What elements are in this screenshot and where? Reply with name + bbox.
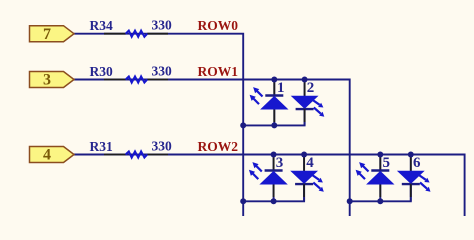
svg-text:330: 330 [152, 18, 173, 33]
resistor R31 [104, 151, 168, 157]
junction ROW1/LED2 [302, 77, 308, 83]
junction ROW1/LED1 [271, 77, 277, 83]
wire LED6 column [410, 155, 412, 202]
junction ROW2/LED3 [271, 152, 277, 158]
wire net ROW1 (horizontal then vertical at x=349.7) [74, 80, 350, 217]
junction ROW2/LED5 [377, 152, 383, 158]
junction LED3 bottom [271, 198, 277, 204]
wire LED3 column [273, 155, 275, 202]
LED 4 [290, 157, 324, 197]
svg-text:R34: R34 [90, 18, 113, 33]
resistor R30 [104, 76, 168, 82]
svg-text:330: 330 [152, 63, 173, 78]
svg-text:5: 5 [383, 155, 391, 171]
wire LED2 column [304, 80, 306, 126]
svg-text:330: 330 [152, 138, 173, 153]
svg-text:2: 2 [307, 80, 315, 96]
wire net ROW2 (horizontal then vertical at right edge) [74, 155, 465, 217]
LED 3 [249, 157, 288, 197]
junction ROW0 vertical / pair 1-2 bottom [240, 122, 246, 128]
junction ROW2/LED6 [408, 152, 414, 158]
junction ROW1 vertical / pair 5-6 bottom [347, 198, 353, 204]
junction LED1 bottom [271, 122, 277, 128]
wire bottom of LED pair 3/4 [243, 182, 304, 201]
port pin 4 [30, 147, 75, 163]
svg-text:R31: R31 [90, 139, 113, 154]
wire bottom of LED pair 5/6 [350, 182, 411, 201]
LED 5 [356, 157, 395, 197]
wire LED4 column [303, 155, 305, 202]
svg-text:1: 1 [277, 80, 285, 96]
svg-text:R30: R30 [90, 64, 113, 79]
LED 1 [250, 82, 289, 122]
svg-text:ROW0: ROW0 [198, 18, 239, 33]
svg-text:4: 4 [43, 147, 51, 164]
wire LED5 column [379, 155, 381, 202]
svg-text:7: 7 [43, 26, 51, 43]
svg-text:6: 6 [413, 155, 421, 171]
LED 2 [291, 82, 325, 122]
junction ROW0 vertical / pair 3-4 bottom [240, 198, 246, 204]
LED 6 [397, 157, 431, 197]
wire LED1 column [273, 80, 275, 126]
svg-text:ROW2: ROW2 [198, 139, 239, 154]
junction LED5 bottom [377, 198, 383, 204]
svg-text:3: 3 [43, 72, 51, 89]
wire net ROW0 (horizontal then vertical at x=243) [74, 34, 243, 216]
port pin 3 [30, 72, 75, 88]
junction ROW2/LED4 [301, 152, 307, 158]
svg-text:ROW1: ROW1 [198, 64, 239, 79]
svg-text:3: 3 [276, 155, 284, 171]
svg-text:4: 4 [306, 155, 314, 171]
wire bottom of LED pair 1/2 [243, 106, 304, 125]
port pin 7 [30, 26, 75, 42]
resistor R34 [104, 31, 168, 37]
